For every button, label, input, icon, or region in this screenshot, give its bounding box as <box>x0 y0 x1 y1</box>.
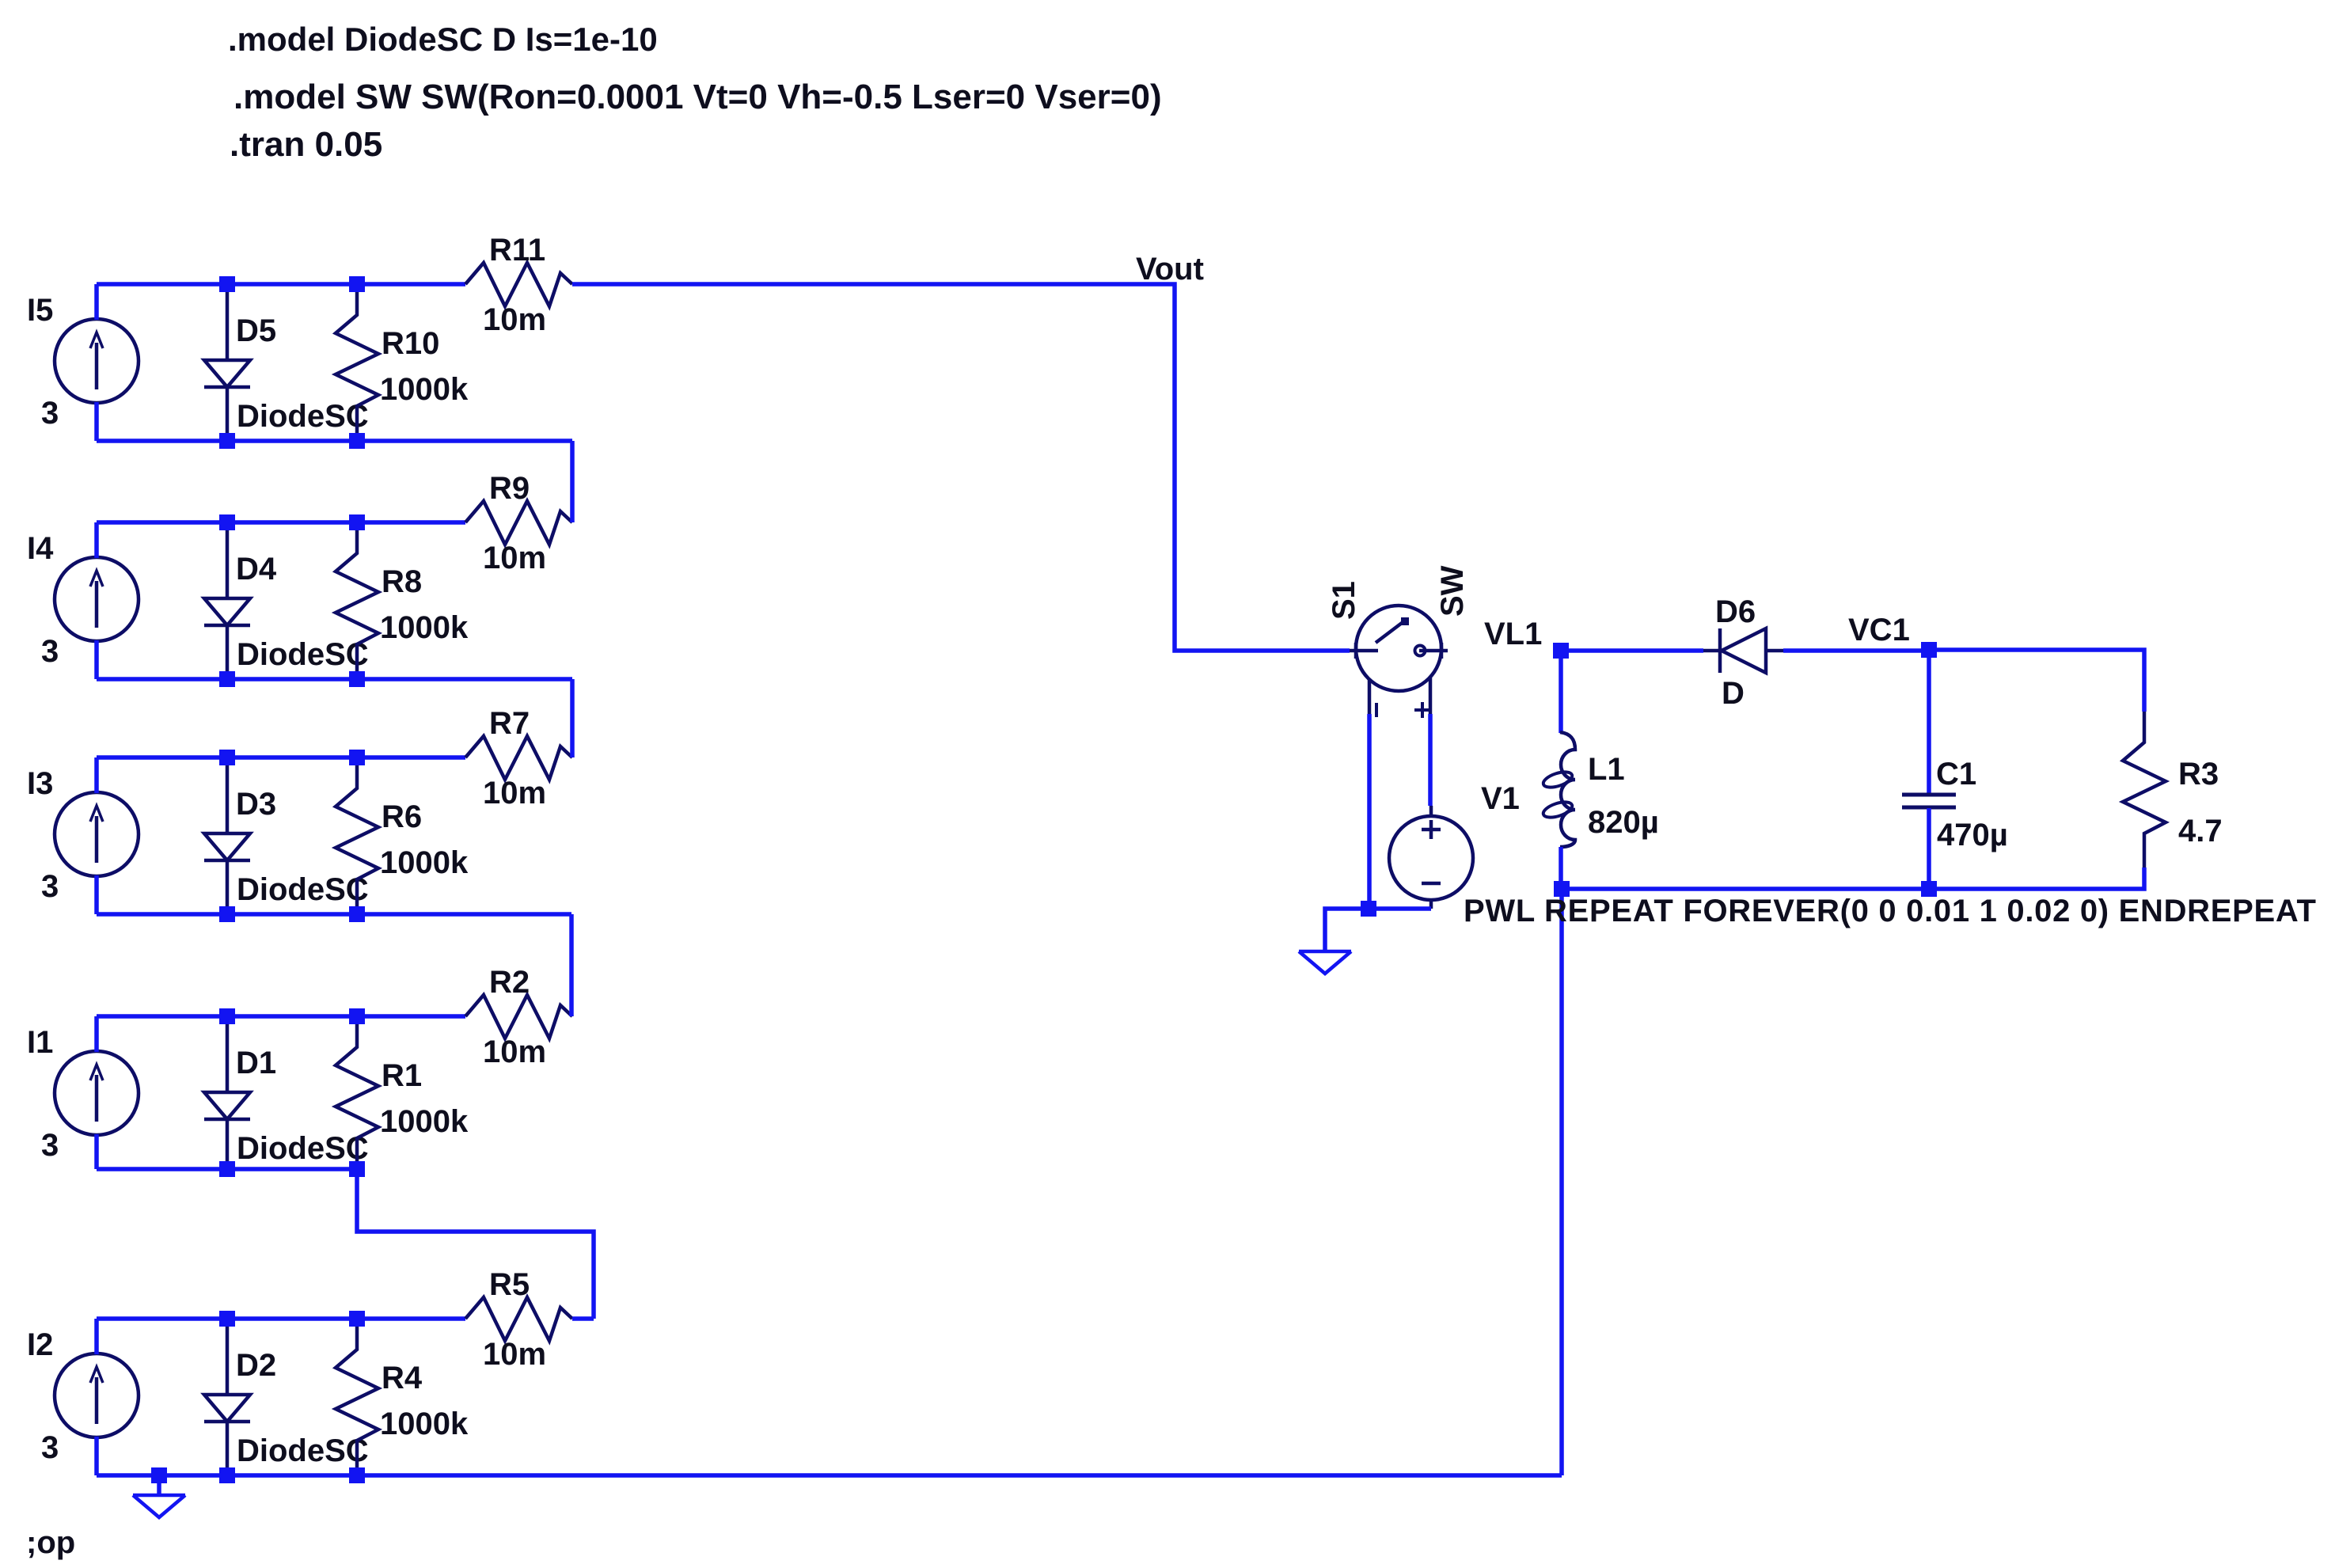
junction node VL1 <box>1553 643 1569 659</box>
resistor R1 (shunt 1000k) <box>336 1016 378 1169</box>
junction row2 diode top <box>219 514 235 530</box>
current source I4 <box>55 557 139 641</box>
wire ground stub bottom-left <box>157 1475 161 1494</box>
wire I3 bottom stub <box>94 875 99 914</box>
junction row4 shunt top <box>349 1008 365 1024</box>
wire I2 bottom stub <box>94 1437 99 1475</box>
wire D6 to VC1 <box>1783 648 1929 653</box>
svg-text:R1: R1 <box>382 1058 422 1093</box>
svg-text:DiodeSC: DiodeSC <box>237 1433 369 1468</box>
wire VL1 to L1 <box>1559 651 1563 733</box>
resistor R9 (series 10m) <box>465 501 572 545</box>
voltage source V1 <box>1389 806 1473 909</box>
junction ground tap row5 <box>151 1467 167 1483</box>
wire S1 plus control to V1 <box>1428 714 1433 806</box>
junction row1 shunt top <box>349 276 365 292</box>
junction row4 shunt bottom <box>349 1161 365 1177</box>
wire I2 top stub <box>94 1319 99 1354</box>
resistor R5 (series 10m) <box>465 1297 572 1341</box>
svg-text:I2: I2 <box>27 1327 53 1362</box>
junction row3 shunt bottom <box>349 906 365 922</box>
svg-text:1000k: 1000k <box>380 1104 469 1139</box>
svg-text:R10: R10 <box>382 326 439 361</box>
svg-text:4.7: 4.7 <box>2178 814 2223 849</box>
svg-text:1000k: 1000k <box>380 372 469 407</box>
junction row5 diode top <box>219 1311 235 1327</box>
svg-text:D4: D4 <box>236 552 277 587</box>
svg-text:820µ: 820µ <box>1588 805 1659 840</box>
svg-text:Vout: Vout <box>1136 252 1204 287</box>
svg-text:.tran 0.05: .tran 0.05 <box>230 125 382 164</box>
junction row2 shunt bottom <box>349 671 365 687</box>
S1 plus pin mark <box>1414 702 1430 718</box>
svg-text:DiodeSC: DiodeSC <box>237 637 369 672</box>
junction row5 diode bottom <box>219 1467 235 1483</box>
junction row4 diode bottom <box>219 1161 235 1177</box>
svg-text:DiodeSC: DiodeSC <box>237 399 369 434</box>
resistor R8 (shunt 1000k) <box>336 522 378 679</box>
diode D3 <box>204 757 250 914</box>
svg-text:I5: I5 <box>27 293 53 328</box>
resistor R6 (shunt 1000k) <box>336 757 378 914</box>
resistor R2 (series 10m) <box>465 995 572 1038</box>
svg-text:.model DiodeSC D Is=1e-10: .model DiodeSC D Is=1e-10 <box>228 21 658 58</box>
wire row4-row5 jog <box>357 1169 594 1319</box>
svg-text:L1: L1 <box>1588 752 1625 787</box>
junction row4 diode top <box>219 1008 235 1024</box>
resistor R11 (series 10m) <box>465 263 572 306</box>
svg-text:R9: R9 <box>489 471 530 506</box>
svg-text:C1: C1 <box>1936 757 1976 792</box>
current source I2 <box>55 1353 139 1437</box>
current source I1 <box>55 1051 139 1135</box>
wire row5 R5 to corner <box>572 1316 594 1321</box>
wire row2 top rail <box>97 520 465 525</box>
svg-text:DiodeSC: DiodeSC <box>237 872 369 907</box>
svg-text:R2: R2 <box>489 965 530 1000</box>
wire S1 minus control to gnd node <box>1367 714 1372 909</box>
svg-text:3: 3 <box>41 1430 59 1465</box>
svg-text:R7: R7 <box>489 706 530 741</box>
junction row3 diode top <box>219 750 235 765</box>
svg-text:R8: R8 <box>382 564 422 599</box>
capacitor C1 <box>1902 795 1956 807</box>
wire I4 bottom stub <box>94 640 99 679</box>
svg-text:10m: 10m <box>483 302 546 337</box>
wire row2 bottom rail <box>97 677 572 681</box>
svg-text:R5: R5 <box>489 1267 530 1302</box>
wire row1 bottom rail <box>97 439 572 443</box>
resistor R10 (shunt 1000k) <box>336 284 378 441</box>
svg-text:470µ: 470µ <box>1937 818 2008 852</box>
wire bottom rail (node 0) <box>97 1473 1562 1478</box>
wire VC1 to R3 corner <box>1929 650 2144 712</box>
wire row5 top rail <box>97 1316 465 1321</box>
wire bottom riser to L1 <box>1559 889 1564 1475</box>
wire Vout net (R11 to switch) <box>572 284 1350 651</box>
junction row5 shunt top <box>349 1311 365 1327</box>
junction row3 diode bottom <box>219 906 235 922</box>
svg-text:D5: D5 <box>236 313 276 348</box>
svg-text:3: 3 <box>41 634 59 669</box>
svg-text:R3: R3 <box>2178 757 2219 792</box>
svg-text:.model SW SW(Ron=0.0001 Vt=0 V: .model SW SW(Ron=0.0001 Vt=0 Vh=-0.5 Lse… <box>233 78 1162 116</box>
resistor R3 <box>2123 712 2166 868</box>
wire I1 bottom stub <box>94 1134 99 1169</box>
svg-text:I1: I1 <box>27 1025 53 1060</box>
svg-text:3: 3 <box>41 1128 59 1163</box>
wire V1 bottom to ground <box>1325 909 1431 951</box>
junction row5 shunt bottom <box>349 1467 365 1483</box>
svg-text:I3: I3 <box>27 766 53 801</box>
svg-text:10m: 10m <box>483 541 546 575</box>
wire R3 bottom to C1 bottom <box>1929 868 2144 889</box>
junction node VC1 <box>1921 642 1937 658</box>
junction row1 diode bottom <box>219 433 235 449</box>
resistor R4 (shunt 1000k) <box>336 1319 378 1475</box>
diode D5 <box>204 284 250 441</box>
ground symbol bottom-left <box>133 1495 185 1517</box>
wire I3 top stub <box>94 757 99 793</box>
junction row1 diode top <box>219 276 235 292</box>
wire I4 top stub <box>94 522 99 558</box>
S1 minus pin mark <box>1375 703 1378 717</box>
svg-text:VL1: VL1 <box>1484 617 1542 651</box>
current source I3 <box>55 792 139 876</box>
svg-text:;op: ;op <box>26 1525 75 1560</box>
svg-text:R6: R6 <box>382 799 422 834</box>
junction row3 shunt top <box>349 750 365 765</box>
wire C1 bottom stem <box>1927 808 1931 889</box>
wire I5 top stub <box>94 284 99 320</box>
svg-text:1000k: 1000k <box>380 1407 469 1441</box>
svg-text:D3: D3 <box>236 787 276 822</box>
svg-text:V1: V1 <box>1481 781 1520 816</box>
wire L1 bottom <box>1559 847 1563 889</box>
junction row2 shunt top <box>349 514 365 530</box>
svg-text:D6: D6 <box>1715 594 1756 629</box>
wire row1-row2 vertical <box>570 441 575 522</box>
ground symbol under V1 <box>1299 951 1351 974</box>
svg-text:10m: 10m <box>483 1337 546 1372</box>
wire C1 top stem <box>1927 650 1931 794</box>
svg-text:1000k: 1000k <box>380 845 469 880</box>
junction L1 bottom node <box>1554 881 1570 897</box>
svg-text:D1: D1 <box>236 1046 276 1080</box>
wire row2-row3 vertical <box>570 679 575 757</box>
diode D6 <box>1703 628 1783 673</box>
junction row2 diode bottom <box>219 671 235 687</box>
svg-text:PWL REPEAT FOREVER(0 0 0.01 1: PWL REPEAT FOREVER(0 0 0.01 1 0.02 0) EN… <box>1464 894 2317 928</box>
diode D2 <box>204 1319 250 1475</box>
svg-text:I4: I4 <box>27 531 54 566</box>
svg-text:3: 3 <box>41 869 59 904</box>
wire row3-row4 vertical <box>569 914 574 1016</box>
svg-text:S1: S1 <box>1327 581 1361 620</box>
wire row3 bottom rail <box>97 912 571 917</box>
wire row4 bottom rail <box>97 1167 357 1171</box>
wire I1 top stub <box>94 1016 99 1052</box>
switch S1 <box>1350 606 1448 714</box>
svg-text:D: D <box>1722 676 1745 711</box>
wire VL1 to D6 <box>1569 648 1703 653</box>
svg-text:3: 3 <box>41 396 59 431</box>
wire row4 top rail <box>97 1014 465 1019</box>
resistor R7 (series 10m) <box>465 736 572 780</box>
junction C1 bottom <box>1921 881 1937 897</box>
junction V1 ground node <box>1361 901 1376 917</box>
inductor L1 <box>1541 732 1575 847</box>
svg-text:R11: R11 <box>489 233 545 268</box>
wire I5 bottom stub <box>94 402 99 441</box>
svg-text:VC1: VC1 <box>1848 613 1910 647</box>
wire row1 top rail <box>97 282 465 287</box>
svg-text:SW: SW <box>1435 565 1470 617</box>
current source I5 <box>55 319 139 403</box>
svg-text:1000k: 1000k <box>380 610 469 645</box>
svg-text:DiodeSC: DiodeSC <box>237 1131 369 1166</box>
wire row3 top rail <box>97 755 465 760</box>
svg-text:R4: R4 <box>382 1361 423 1395</box>
svg-text:D2: D2 <box>236 1348 276 1383</box>
wire C1 bottom to L1 bottom <box>1562 887 1929 891</box>
junction row1 shunt bottom <box>349 433 365 449</box>
diode D4 <box>204 522 250 679</box>
diode D1 <box>204 1016 250 1169</box>
svg-text:10m: 10m <box>483 776 546 811</box>
svg-text:10m: 10m <box>483 1035 546 1069</box>
